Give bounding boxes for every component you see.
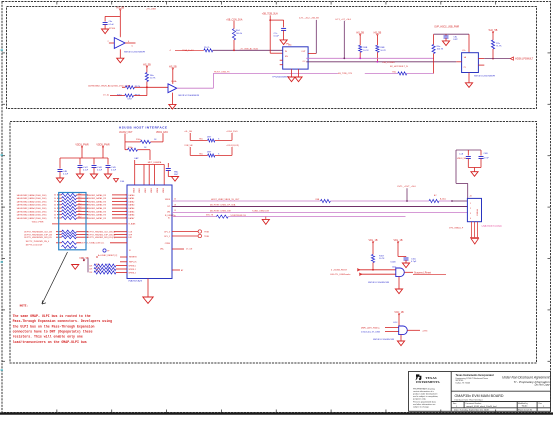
svg-text:DM: DM	[167, 211, 170, 213]
svg-text:HSUSB2_DATA1_R3: HSUSB2_DATA1_R3	[87, 197, 107, 200]
svg-text:DNT: DNT	[174, 174, 179, 176]
svg-text:R6x: R6x	[199, 139, 203, 141]
svg-text:DATA5: DATA5	[129, 210, 135, 213]
svg-text:Tuesday, September 04, 2008: Tuesday, September 04, 2008	[459, 409, 489, 412]
svg-text:RESETB: RESETB	[129, 256, 137, 258]
svg-text:HSUSB2_DATA5_R3: HSUSB2_DATA5_R3	[87, 210, 107, 213]
svg-text:SN74LVC1G08DCKR: SN74LVC1G08DCKR	[368, 282, 390, 284]
svg-text:DATA1: DATA1	[129, 197, 135, 200]
svg-text:VBUS_5B: VBUS_5B	[457, 158, 467, 160]
svg-text:4B_HOST_USB2_DM: 4B_HOST_USB2_DM	[210, 211, 231, 213]
svg-text:connectors have to DNT (Depopu: connectors have to DNT (Depopulate) thes…	[13, 329, 93, 333]
svg-text:the ULPI bus on the Pass-Throu: the ULPI bus on the Pass-Through Expansi…	[13, 324, 95, 328]
svg-text:The same OMAP- ULPI bus is rou: The same OMAP- ULPI bus is routed to the	[13, 314, 91, 318]
svg-text:V5A2SDCA2S: V5A2SDCA2S	[128, 279, 143, 282]
svg-text:OMAP35x EVM MAIN BOARD: OMAP35x EVM MAIN BOARD	[455, 394, 504, 398]
svg-text:10.7K: 10.7K	[380, 50, 386, 52]
svg-text:VDD3: VDD3	[151, 188, 153, 193]
svg-text:T-0801_USB2_DM: T-0801_USB2_DM	[252, 211, 269, 213]
svg-text:TP4B: TP4B	[204, 236, 209, 238]
svg-text:1A HSUSB2_DATA7 (2G06_DV0): 1A HSUSB2_DATA7 (2G06_DV0)	[17, 217, 47, 220]
svg-text:and other information are: and other information are	[413, 403, 436, 406]
svg-text:R167: R167	[379, 256, 385, 258]
svg-text:DNT: DNT	[207, 152, 212, 154]
svg-text:1A HSUSB2_DATA6 (2G06_DV0): 1A HSUSB2_DATA6 (2G06_DV0)	[17, 214, 47, 217]
svg-text:SN74LVC1G08DCKR: SN74LVC1G08DCKR	[373, 339, 395, 341]
svg-text:HSUSB2_DATA4_R3: HSUSB2_DATA4_R3	[87, 207, 107, 210]
svg-text:TPS2041BDBVR: TPS2041BDBVR	[272, 76, 289, 78]
svg-text:V1R_5R: V1R_5R	[184, 145, 193, 147]
svg-text:U14B: U14B	[391, 262, 397, 264]
svg-text:DATA3: DATA3	[129, 204, 135, 207]
svg-text:PROPRIETARY drawing: PROPRIETARY drawing	[413, 388, 435, 391]
svg-text:2G0A: 2G0A	[171, 80, 177, 83]
svg-text:1B PTX_DCDC/DT: 1B PTX_DCDC/DT	[26, 245, 44, 247]
svg-text:19: 19	[174, 210, 176, 212]
svg-text:30: 30	[54, 201, 56, 203]
svg-text:30: 30	[54, 214, 56, 216]
svg-text:VDD1: VDD1	[139, 188, 141, 193]
svg-text:Do Not Copy: Do Not Copy	[535, 383, 551, 387]
svg-text:+DD0_DV0: +DD0_DV0	[226, 131, 238, 133]
svg-text:V7S_USB4_LF: V7S_USB4_LF	[449, 228, 464, 230]
svg-text:Under Non Disclosure Agreement: Under Non Disclosure Agreement	[502, 375, 550, 379]
svg-text:8: 8	[126, 218, 127, 220]
svg-text:DATA6: DATA6	[129, 214, 135, 217]
svg-text:SN74LVC2G07DBVR: SN74LVC2G07DBVR	[124, 52, 145, 54]
svg-text:VDD5: VDD5	[163, 188, 165, 193]
svg-text:Texas Instruments Incorporated: Texas Instruments Incorporated	[456, 374, 494, 377]
svg-text:DATA4: DATA4	[129, 207, 135, 210]
svg-text:MFT_USB/PA: MFT_USB/PA	[148, 161, 162, 164]
svg-text:5.1887/2043.2.B: 5.1887/2043.2.B	[231, 215, 247, 217]
svg-text:30: 30	[54, 218, 56, 220]
svg-text:1A HSUSB2_DATA1 (2G06_DV0): 1A HSUSB2_DATA1 (2G06_DV0)	[17, 197, 47, 200]
svg-text:30: 30	[54, 211, 56, 213]
svg-text:1: 1	[470, 203, 471, 205]
svg-text:DPL_0: DPL_0	[164, 231, 170, 233]
svg-text:140g: 140g	[392, 266, 396, 268]
svg-text:0-T1_+5L2_+5B_5B: 0-T1_+5L2_+5B_5B	[299, 18, 319, 20]
svg-text:U6x: U6x	[288, 45, 292, 47]
svg-text:10.7K: 10.7K	[379, 258, 385, 260]
svg-text:HDS6.LPS/MULT: HDS6.LPS/MULT	[515, 59, 533, 61]
svg-text:omap3_EVM_abcd_10x45_brd: omap3_EVM_abcd_10x45_brd	[466, 405, 497, 408]
svg-text:R1xx: R1xx	[96, 267, 100, 269]
svg-text:DATA2: DATA2	[129, 200, 135, 203]
svg-text:100.7K: 100.7K	[437, 49, 444, 51]
svg-text:Persons proprietable data: Persons proprietable data	[413, 400, 437, 403]
svg-text:DATA7: DATA7	[129, 217, 135, 220]
svg-text:Interface from: Host Interface: Interface from: Host Interface	[455, 398, 484, 401]
svg-text:C4B: C4B	[484, 153, 489, 155]
svg-text:1A HSUSB2_DATA2 (2G06_DV0): 1A HSUSB2_DATA2 (2G06_DV0)	[17, 200, 47, 203]
svg-text:TI3A_D+5V: TI3A_D+5V	[182, 49, 194, 52]
svg-text:R6x: R6x	[199, 154, 203, 156]
svg-text:A-LUSB2_RESET [C]: A-LUSB2_RESET [C]	[98, 254, 118, 257]
svg-text:1B PTX_7USB2_DNT_DL: 1B PTX_7USB2_DNT_DL	[81, 243, 105, 245]
svg-text:load/transceivers on the OMAP-: load/transceivers on the OMAP-ULPI bus	[13, 340, 87, 344]
svg-text:Sheet 14 of 30: Sheet 14 of 30	[518, 409, 533, 412]
svg-text:and is subject to completion,: and is subject to completion,	[413, 395, 439, 398]
svg-text:HSUSB2_DATA7_R3: HSUSB2_DATA7_R3	[87, 217, 107, 220]
svg-text:10.7K: 10.7K	[150, 78, 156, 80]
svg-text:INSTRUMENTS.: INSTRUMENTS.	[416, 380, 440, 384]
svg-text:dMR_udbV_Rdbna: dMR_udbV_Rdbna	[361, 328, 380, 330]
svg-text:Suspend_Reset: Suspend_Reset	[414, 271, 431, 274]
svg-text:1A HSUSB2_DATA0 (2G06_DV0): 1A HSUSB2_DATA0 (2G06_DV0)	[17, 194, 47, 197]
svg-text:4B_HOST_USB2_DP_5UA: 4B_HOST_USB2_DP_5UA	[210, 204, 236, 207]
svg-text:teGaV-dra 4T_USB: teGaV-dra 4T_USB	[361, 331, 380, 334]
svg-text:CAP: CAP	[134, 157, 139, 160]
svg-text:0.1uF: 0.1uF	[97, 170, 103, 172]
svg-text:4.7pF: 4.7pF	[411, 261, 417, 263]
svg-text:VDD0: VDD0	[134, 188, 136, 193]
svg-text:1B PTX_HSUSB2MX_CLK_DN: 1B PTX_HSUSB2MX_CLK_DN	[24, 232, 53, 234]
svg-text:subject to change.: subject to change.	[413, 405, 430, 408]
svg-text:SN74LVC2G07DBVR: SN74LVC2G07DBVR	[474, 76, 495, 78]
svg-text:2: 2	[126, 198, 127, 200]
svg-text:C+B: C+B	[459, 154, 464, 156]
svg-text:7: 7	[126, 214, 127, 216]
svg-text:10.7K: 10.7K	[363, 50, 369, 52]
svg-text:A.10xx: A.10xx	[440, 198, 446, 201]
svg-text:ts: ts	[132, 45, 134, 48]
svg-text:VBUS: VBUS	[165, 199, 171, 201]
svg-text:product under development: product under development	[413, 393, 438, 396]
svg-text:4: 4	[470, 218, 471, 220]
svg-text:VDD2: VDD2	[145, 188, 147, 193]
svg-text:SN74LVC2G06DBVR: SN74LVC2G06DBVR	[178, 95, 199, 97]
svg-text:TP104: TP104	[109, 28, 116, 30]
svg-text:CPEN: CPEN	[165, 243, 171, 245]
svg-text:3: 3	[126, 201, 127, 203]
svg-text:DNT: DNT	[207, 137, 212, 139]
svg-text:-CRG: -CRG	[422, 330, 428, 332]
svg-text:USB HOST CONN: USB HOST CONN	[482, 225, 502, 228]
svg-text:+5B_CON_5UA: +5B_CON_5UA	[226, 18, 243, 21]
svg-text:1A HSUSB2_DATA3 (2G06_DV0): 1A HSUSB2_DATA3 (2G06_DV0)	[17, 204, 47, 207]
svg-text:1B PTX_HSUSB2MX_STP_DN: 1B PTX_HSUSB2MX_STP_DN	[24, 234, 53, 236]
svg-text:HOST_USB2_VBUS_5V_OUT: HOST_USB2_VBUS_5V_OUT	[211, 199, 240, 201]
svg-text:0.1uF: 0.1uF	[63, 174, 69, 176]
svg-text:R1xx: R1xx	[96, 271, 100, 273]
svg-text:HSUSB2_DATA2_R3: HSUSB2_DATA2_R3	[87, 200, 107, 203]
svg-text:1A HSUSB2_DATA4 (2G06_DV0): 1A HSUSB2_DATA4 (2G06_DV0)	[17, 207, 47, 210]
svg-text:NOTE:: NOTE:	[20, 304, 29, 307]
svg-text:2: 2	[470, 208, 471, 210]
svg-text:4: 4	[126, 205, 127, 207]
svg-text:0.1uF: 0.1uF	[111, 170, 117, 172]
svg-text:71.7K: 71.7K	[496, 46, 502, 48]
svg-text:USB-A: USB-A	[476, 209, 479, 216]
svg-text:DNT: DNT	[128, 98, 133, 100]
svg-text:contain information of a: contain information of a	[413, 390, 435, 393]
svg-text:0.1uF: 0.1uF	[109, 24, 115, 26]
svg-text:1B PTX_HSUSB2_DIR_DN [C]: 1B PTX_HSUSB2_DIR_DN [C]	[87, 237, 115, 239]
svg-text:CT_0x: CT_0x	[103, 94, 110, 96]
svg-text:OVTL_+DVT_+5L0: OVTL_+DVT_+5L0	[397, 186, 417, 188]
svg-text:Pass-Through Expansion connect: Pass-Through Expansion connectors. Devel…	[13, 319, 113, 323]
svg-text:Wade: Wade	[522, 406, 528, 408]
svg-text:100.1k: 100.1k	[236, 33, 243, 35]
svg-text:HSUSB HOST INTERFACE: HSUSB HOST INTERFACE	[119, 126, 168, 130]
svg-text:Dallas, TX 75243: Dallas, TX 75243	[456, 383, 470, 385]
svg-text:+DD1(1,DVI): +DD1(1,DVI)	[226, 145, 239, 147]
svg-text:33S_7S: 33S_7S	[206, 215, 214, 217]
svg-text:+5B_TI2B_5UA: +5B_TI2B_5UA	[262, 12, 278, 15]
svg-text:VAUX2_OUT: VAUX2_OUT	[119, 131, 133, 134]
svg-text:4.7uF: 4.7uF	[484, 158, 490, 160]
svg-text:R1xx: R1xx	[96, 264, 100, 266]
svg-text:SPKRL0: SPKRL0	[129, 266, 136, 268]
svg-text:20: 20	[174, 199, 176, 201]
svg-text:R_BIAS: R_BIAS	[129, 223, 136, 226]
svg-text:1B PTX_HSUSB2_STP_DN [C]: 1B PTX_HSUSB2_STP_DN [C]	[87, 234, 116, 236]
svg-text:1B PTX_7USB2MX_DN_0: 1B PTX_7USB2MX_DN_0	[26, 241, 50, 243]
svg-text:B_USB_ID: B_USB_ID	[165, 215, 175, 217]
svg-text:30: 30	[54, 205, 56, 207]
svg-text:30: 30	[54, 195, 56, 197]
svg-text:OVP_HSO2_USB_PWR: OVP_HSO2_USB_PWR	[434, 27, 459, 29]
svg-text:Rev: Rev	[539, 403, 542, 405]
svg-text:Document Number: Document Number	[466, 402, 482, 405]
svg-text:DATA0: DATA0	[129, 194, 135, 197]
svg-text:30: 30	[54, 198, 56, 200]
svg-text:HSUSB2_DATA0_R3: HSUSB2_DATA0_R3	[87, 194, 107, 197]
svg-text:30: 30	[54, 208, 56, 210]
svg-text:3: 3	[470, 213, 471, 215]
svg-text:+TI_USB_Ax_5UA: +TI_USB_Ax_5UA	[240, 47, 259, 50]
svg-text:4 +5USB_RGST: 4 +5USB_RGST	[331, 270, 348, 272]
svg-text:6: 6	[126, 211, 127, 213]
svg-text:HSUSB2_DATA3_R3: HSUSB2_DATA3_R3	[87, 204, 107, 207]
svg-text:5: 5	[126, 208, 127, 210]
svg-text:+0L_5B: +0L_5B	[184, 131, 192, 133]
svg-text:1B PTX_HSUSB2MX_DIR_DN: 1B PTX_HSUSB2MX_DIR_DN	[24, 237, 52, 239]
svg-text:1A HSUSB2_DATA5 (2G06_DV0): 1A HSUSB2_DATA5 (2G06_DV0)	[17, 210, 47, 213]
svg-text:resistors. This will enable on: resistors. This will enable only one	[13, 335, 83, 339]
svg-text:+5V_USB: +5V_USB	[146, 9, 156, 11]
svg-text:1B PTX_HSUSB2_CLK_DN [C]: 1B PTX_HSUSB2_CLK_DN [C]	[87, 232, 116, 234]
svg-text:U-B 4TL_USB2make: U-B 4TL_USB2make	[330, 274, 351, 276]
svg-text:B2_HOT/MULT_N: B2_HOT/MULT_N	[390, 66, 408, 68]
svg-text:R5.7k: R5.7k	[204, 47, 210, 49]
svg-text:VDD1_EXC: VDD1_EXC	[156, 132, 168, 134]
svg-text:4B_TI2B_OT5: 4B_TI2B_OT5	[338, 73, 353, 75]
svg-text:SPKRL2: SPKRL2	[129, 272, 136, 274]
svg-text:U7x: U7x	[462, 50, 466, 52]
svg-text:HSUSB2_DATA6_R3: HSUSB2_DATA6_R3	[87, 214, 107, 217]
svg-text:Size: Size	[453, 403, 457, 405]
svg-text:1: 1	[126, 195, 127, 197]
svg-text:SPKRL1: SPKRL1	[129, 269, 136, 271]
svg-text:TP4B: TP4B	[204, 231, 209, 233]
svg-text:DNT: DNT	[453, 39, 458, 41]
svg-text:VDD2_PWR: VDD2_PWR	[32, 222, 44, 224]
svg-text:0.1uF: 0.1uF	[83, 170, 89, 172]
svg-text:17_CN: 17_CN	[186, 248, 193, 250]
svg-text:+5B_POWER: +5B_POWER	[382, 62, 395, 64]
svg-text:DPL_1: DPL_1	[164, 236, 170, 238]
svg-text:0-T1_+0T_+5L0: 0-T1_+0T_+5L0	[335, 19, 351, 21]
svg-text:0.1uF: 0.1uF	[274, 36, 280, 38]
svg-text:REFCLK: REFCLK	[129, 262, 137, 264]
svg-text:VDD4: VDD4	[157, 188, 159, 193]
